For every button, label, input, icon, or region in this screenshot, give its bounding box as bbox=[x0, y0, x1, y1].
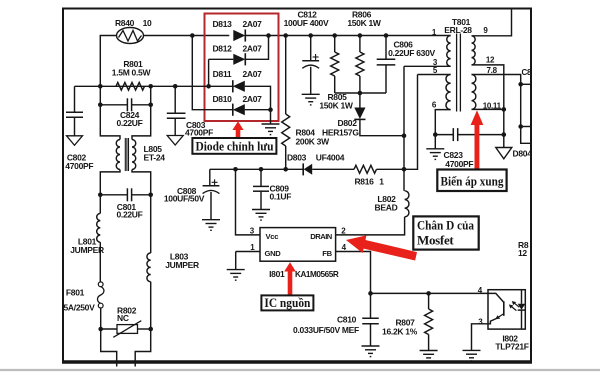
node: R802 right junction bbox=[148, 327, 153, 332]
svg-text:KA1M0565R: KA1M0565R bbox=[295, 270, 339, 279]
node: rail junction into bridge (AC1) bbox=[190, 33, 195, 38]
capacitor C806 bbox=[385, 36, 387, 60]
wire: snubber bottom row bbox=[335, 92, 386, 94]
svg-text:12: 12 bbox=[518, 248, 527, 258]
svg-text:2A07: 2A07 bbox=[242, 19, 262, 29]
svg-text:2A07: 2A07 bbox=[242, 94, 262, 104]
wire: R840 left lead down to R801 row bbox=[100, 36, 116, 87]
svg-text:10: 10 bbox=[143, 18, 152, 28]
wire: AC1 vertical to D810 row bbox=[192, 36, 233, 110]
diode D811 bbox=[233, 81, 245, 92]
wire: C824 row bbox=[99, 86, 101, 105]
svg-text:16.2K 1%: 16.2K 1% bbox=[382, 327, 418, 337]
node: R805 junction on rail bbox=[332, 33, 337, 38]
svg-text:ET-24: ET-24 bbox=[144, 153, 166, 163]
svg-text:FB: FB bbox=[322, 249, 332, 258]
wire: D812 row left + vertical to AC2 node bbox=[209, 58, 234, 60]
wire: pin 7.8 to C8 line bbox=[472, 75, 531, 144]
wire: pin 3 row bbox=[404, 65, 451, 67]
inductor L803 bbox=[150, 195, 152, 253]
node: pin10.11 junction bbox=[502, 107, 507, 112]
wire: D811 anode right to negative rail bbox=[245, 86, 271, 109]
ground: C808 bbox=[202, 219, 220, 221]
wire: FB row to optocoupler bbox=[371, 292, 489, 294]
svg-text:0.1UF: 0.1UF bbox=[270, 192, 292, 202]
node: C806 junction on rail bbox=[384, 33, 389, 38]
capacitor C810 bbox=[370, 293, 372, 318]
svg-text:JUMPER: JUMPER bbox=[165, 260, 199, 270]
svg-text:I801: I801 bbox=[269, 269, 285, 279]
node: AC2 entry to bridge bbox=[206, 84, 211, 89]
wire: opto pin 3 to ground bbox=[472, 324, 489, 351]
ground: C810 bbox=[362, 345, 380, 347]
node: C8 stubs bbox=[518, 82, 523, 87]
wire: C823 row bbox=[435, 134, 453, 136]
wire: FB pin 4 down bbox=[336, 252, 371, 294]
svg-text:2A07: 2A07 bbox=[242, 44, 262, 54]
ground: C812 bbox=[302, 93, 320, 95]
node: C810 junction bbox=[368, 291, 373, 296]
node: D812-D813 cathode junction on rail bbox=[266, 33, 271, 38]
capacitor C809 bbox=[260, 169, 262, 186]
ground: opto emitter bbox=[463, 349, 481, 351]
node: R804 bottom junction bbox=[283, 167, 288, 172]
node: C801 right junction bbox=[148, 193, 153, 198]
capacitor C801 bbox=[126, 188, 128, 201]
svg-text:ERL-28: ERL-28 bbox=[444, 25, 472, 35]
node: D802 return junction bbox=[402, 133, 407, 138]
svg-text:0.22UF: 0.22UF bbox=[116, 118, 142, 128]
svg-text:D810: D810 bbox=[212, 94, 232, 104]
node: C803 junction on AC2 row bbox=[173, 84, 178, 89]
node: R806 junction on rail bbox=[358, 33, 363, 38]
svg-text:UF4004: UF4004 bbox=[316, 153, 345, 163]
svg-text:7.8: 7.8 bbox=[487, 66, 498, 75]
wire: pin 6 down to C823 row bbox=[435, 110, 450, 135]
wire: GND pin 1 to ground bbox=[236, 251, 260, 253]
ground: bridge negative bbox=[262, 123, 280, 125]
diode D813 bbox=[233, 30, 245, 41]
transformer T801 bbox=[446, 34, 476, 112]
svg-text:4700PF: 4700PF bbox=[445, 159, 473, 169]
diode D803 bbox=[302, 163, 304, 175]
red arrow pointing to DRAIN pin bbox=[346, 235, 417, 260]
svg-text:R816: R816 bbox=[354, 177, 374, 187]
wire: Vcc pin 3 bbox=[236, 169, 261, 235]
svg-text:DRAIN: DRAIN bbox=[310, 232, 332, 241]
wire: pin5 riser from bus bbox=[404, 75, 418, 170]
svg-text:150K 1W: 150K 1W bbox=[319, 101, 354, 111]
capacitor C803 bbox=[174, 86, 176, 112]
wire: pin 12 down right side bbox=[472, 65, 504, 147]
capacitor C824 bbox=[126, 98, 128, 111]
svg-text:4700PF: 4700PF bbox=[65, 161, 93, 171]
node: C823/pin12 junction bbox=[502, 132, 507, 137]
svg-text:10.11: 10.11 bbox=[483, 102, 502, 111]
inductor L801 bbox=[99, 195, 101, 214]
fuse F801 bbox=[97, 282, 103, 329]
svg-text:Chân D của: Chân D của bbox=[417, 218, 474, 233]
svg-text:D803: D803 bbox=[287, 153, 307, 163]
callout box: Diode chinh luu bbox=[192, 138, 276, 154]
capacitor C8 cut at border bbox=[521, 84, 530, 126]
svg-text:12: 12 bbox=[486, 56, 495, 65]
svg-text:JUMPER: JUMPER bbox=[70, 245, 104, 255]
wire: D810 anode to ground stem bbox=[245, 110, 271, 124]
svg-text:NC: NC bbox=[117, 313, 129, 323]
wire: Vcc bus row bbox=[210, 168, 303, 170]
red arrow pointing to bridge diodes bbox=[232, 121, 243, 138]
svg-text:Biến áp xung: Biến áp xung bbox=[441, 173, 504, 188]
wire: AC plug prongs through border bbox=[101, 329, 117, 367]
svg-text:200K 3W: 200K 3W bbox=[296, 137, 331, 147]
IC I801 KA1M0565R body bbox=[260, 228, 336, 262]
callout box: Chan D cua Mosfet bbox=[413, 216, 478, 249]
node: D810-D811 anode junction bbox=[268, 107, 273, 112]
thermistor R840 bbox=[117, 28, 144, 44]
node: C801 left junction bbox=[98, 193, 103, 198]
inductor L802 BEAD bbox=[405, 191, 409, 217]
node: R802 left junction bbox=[98, 327, 103, 332]
resistor R804 bbox=[285, 36, 287, 115]
svg-text:BEAD: BEAD bbox=[375, 203, 398, 213]
wire: pin 5 row bbox=[418, 74, 451, 76]
ground: C803 open triangle bbox=[167, 136, 183, 146]
wire: R801/AC2 row bbox=[75, 85, 233, 87]
node: R801/C824 left junctions bbox=[98, 84, 103, 89]
svg-text:0.033UF/50V MEF: 0.033UF/50V MEF bbox=[293, 325, 359, 335]
svg-text:D812: D812 bbox=[212, 44, 232, 54]
svg-text:R840: R840 bbox=[115, 18, 135, 28]
svg-text:GND: GND bbox=[265, 249, 282, 258]
varistor R802 bbox=[101, 321, 151, 338]
common-mode choke L805 bbox=[100, 105, 150, 195]
resistor R805 bbox=[334, 36, 336, 53]
node: D802 junction bbox=[358, 91, 363, 96]
svg-text:0.22UF: 0.22UF bbox=[116, 209, 142, 219]
wire: C801 row bbox=[100, 194, 127, 196]
node: R816/pin5 junction bbox=[402, 167, 407, 172]
resistor R801 bbox=[116, 83, 145, 91]
svg-text:5A/250V: 5A/250V bbox=[64, 303, 96, 313]
wire: D812 cathode up to rail bbox=[246, 36, 269, 60]
svg-text:4700PF: 4700PF bbox=[185, 127, 213, 137]
frame: outer schematic border bbox=[63, 9, 531, 362]
callout box: IC nguon bbox=[261, 295, 313, 310]
capacitor C808 electrolytic bbox=[203, 169, 220, 219]
svg-text:150K 1W: 150K 1W bbox=[347, 18, 382, 28]
svg-text:1.5M 0.5W: 1.5M 0.5W bbox=[112, 67, 152, 77]
opto phototransistor bbox=[488, 293, 504, 323]
red arrow pointing to IC bbox=[284, 262, 296, 295]
capacitor C823 bbox=[452, 128, 454, 141]
svg-text:100UF 400V: 100UF 400V bbox=[284, 18, 329, 28]
svg-text:C810: C810 bbox=[337, 315, 357, 325]
wire: DRAIN pin 2 row bbox=[336, 217, 405, 235]
svg-text:100UF/50V: 100UF/50V bbox=[164, 193, 205, 203]
svg-text:1: 1 bbox=[379, 177, 384, 187]
diode D810 bbox=[233, 104, 245, 115]
resistor R816 bbox=[354, 165, 377, 173]
node: pin6/C823 junction bbox=[433, 132, 438, 137]
resistor R807 bbox=[428, 293, 430, 309]
svg-text:2A07: 2A07 bbox=[242, 69, 262, 79]
ground: R807 bbox=[420, 350, 438, 352]
svg-text:D813: D813 bbox=[212, 19, 232, 29]
red arrow pointing to transformer bbox=[471, 110, 484, 169]
connector D804 open triangle bbox=[496, 148, 512, 159]
node: R801/C824 right junctions bbox=[148, 84, 153, 89]
svg-text:Mosfet: Mosfet bbox=[417, 233, 454, 248]
svg-text:D804: D804 bbox=[513, 148, 533, 158]
svg-text:HER157G: HER157G bbox=[322, 128, 359, 138]
capacitor C802 bbox=[74, 86, 76, 111]
svg-text:Vcc: Vcc bbox=[266, 232, 279, 241]
node: C812 junction on rail bbox=[308, 33, 313, 38]
diode D812 bbox=[233, 54, 245, 65]
svg-text:F801: F801 bbox=[66, 287, 85, 297]
node: R807 junction bbox=[426, 291, 431, 296]
svg-text:Diode chỉnh lưu: Diode chỉnh lưu bbox=[196, 138, 274, 153]
opto light arrows bbox=[509, 301, 519, 311]
highlight red box around bridge diodes bbox=[205, 14, 279, 122]
opto LED bbox=[518, 290, 526, 329]
svg-text:C8: C8 bbox=[522, 68, 532, 77]
wire: drain vertical from pin3 row down through L802 bbox=[403, 66, 405, 191]
svg-text:0.22UF 630V: 0.22UF 630V bbox=[388, 48, 435, 58]
ground: IC GND bbox=[227, 269, 245, 271]
wire: pin 10.11 to junction bbox=[472, 108, 504, 110]
ground: C809 bbox=[252, 209, 270, 211]
node: C809 branch junction bbox=[259, 167, 264, 172]
wire: AC top rail from R840 to T801 pin 1 bbox=[144, 35, 230, 37]
callout box: Bien ap xung bbox=[437, 170, 506, 192]
resistor R806 bbox=[359, 36, 361, 53]
svg-text:IC nguồn: IC nguồn bbox=[264, 295, 311, 310]
svg-text:D811: D811 bbox=[213, 69, 232, 79]
capacitor C812 electrolytic bbox=[302, 36, 319, 95]
node: Vcc branch junction bbox=[233, 167, 238, 172]
svg-text:TLP721F: TLP721F bbox=[495, 341, 528, 351]
optocoupler I802 body bbox=[488, 290, 525, 329]
svg-text:D802: D802 bbox=[338, 118, 358, 128]
diode D802 bbox=[359, 93, 361, 108]
ground: C823 bbox=[434, 135, 436, 149]
ground: C802 open triangle bbox=[67, 136, 83, 146]
node: R804 junction on rail bbox=[283, 33, 288, 38]
wire: pin 9 up to border bbox=[472, 10, 512, 36]
